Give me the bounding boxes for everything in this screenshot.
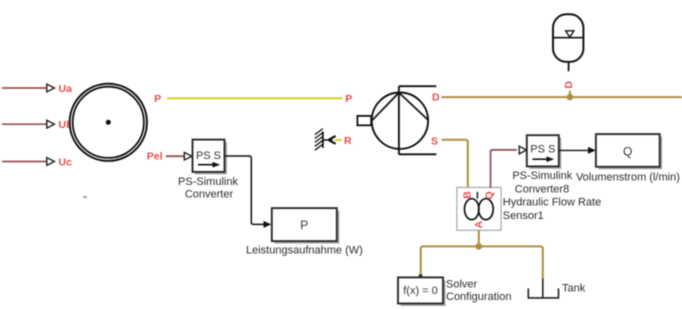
svg-text:P: P	[300, 218, 308, 232]
svg-text:Uc: Uc	[59, 157, 73, 169]
svg-text:B: B	[461, 191, 473, 199]
svg-text:D: D	[563, 81, 575, 89]
svg-text:Hydraulic Flow Rate: Hydraulic Flow Rate	[503, 196, 601, 208]
svg-text:Converter8: Converter8	[515, 183, 569, 195]
svg-text:PS S: PS S	[196, 150, 221, 162]
svg-text:R: R	[344, 135, 352, 147]
svg-text:Volumenstrom (l/min): Volumenstrom (l/min)	[576, 171, 680, 183]
svg-text:D: D	[432, 91, 440, 103]
svg-text:Converter: Converter	[185, 189, 234, 201]
svg-text:PS S: PS S	[530, 143, 555, 155]
svg-text:P: P	[154, 93, 161, 105]
svg-text:Tank: Tank	[562, 283, 586, 295]
svg-text:Pel: Pel	[147, 150, 163, 162]
svg-text:Sensor1: Sensor1	[503, 210, 544, 222]
svg-text:Solver: Solver	[446, 279, 478, 291]
svg-text:Leistungsaufnahme (W): Leistungsaufnahme (W)	[246, 245, 363, 257]
svg-text:Q: Q	[483, 191, 495, 199]
svg-text:PS-Simulink: PS-Simulink	[512, 170, 572, 182]
svg-text:f(x) = 0: f(x) = 0	[403, 285, 438, 297]
svg-text:A: A	[473, 220, 485, 228]
svg-text:S: S	[431, 136, 438, 148]
svg-text:P: P	[345, 93, 352, 105]
svg-text:Ua: Ua	[59, 83, 73, 95]
svg-text:Configuration: Configuration	[446, 291, 511, 303]
svg-text:Q: Q	[623, 145, 632, 159]
svg-text:PS-Simulink: PS-Simulink	[178, 176, 238, 188]
